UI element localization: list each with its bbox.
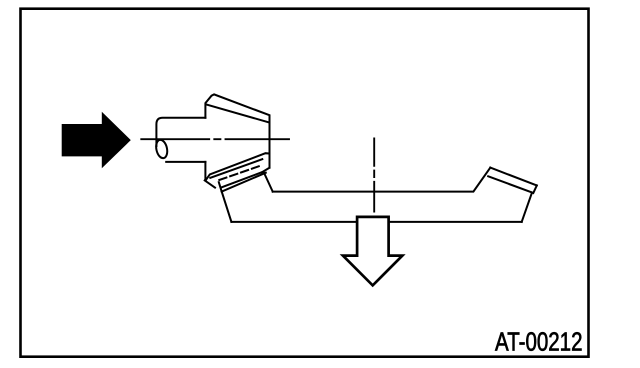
down arrow (hollow) xyxy=(343,217,403,286)
svg-text:AT-00212: AT-00212 xyxy=(495,327,582,356)
shaft cylinder bottom edge xyxy=(166,161,205,163)
lever arm top edge xyxy=(273,168,491,192)
clamp bracket right edge xyxy=(264,172,273,192)
lever end band top edge xyxy=(490,168,537,186)
lever arm bottom edge xyxy=(231,221,521,223)
clamp bracket left cap xyxy=(219,182,222,191)
shaft cylinder end face ellipse xyxy=(155,139,169,159)
shaft cylinder top and left edge xyxy=(156,118,205,146)
horizontal centerline (dash-dot) xyxy=(141,138,289,140)
collar bottom right cap xyxy=(262,168,269,172)
direction arrow (solid black, pointing right) xyxy=(62,112,131,169)
boss bottom edge (collar top) xyxy=(206,153,270,180)
boss lower-left step xyxy=(204,162,206,181)
tapered boss outline (left step, top peak, back edge, right edge) xyxy=(205,94,269,167)
boss corner cut xyxy=(205,180,215,187)
hidden serration line (dashed) xyxy=(219,166,258,180)
clamp bracket bottom edge xyxy=(222,173,266,192)
lever end band bottom edge xyxy=(488,176,532,192)
lever end band right cap xyxy=(533,185,537,193)
collar front top edge xyxy=(210,159,262,178)
lever right edge xyxy=(522,193,532,222)
collar bottom edge xyxy=(222,172,262,187)
boss top front edge xyxy=(206,104,268,122)
vertical centerline (dash-dot) xyxy=(373,138,375,211)
lever arm left edge xyxy=(222,192,232,222)
